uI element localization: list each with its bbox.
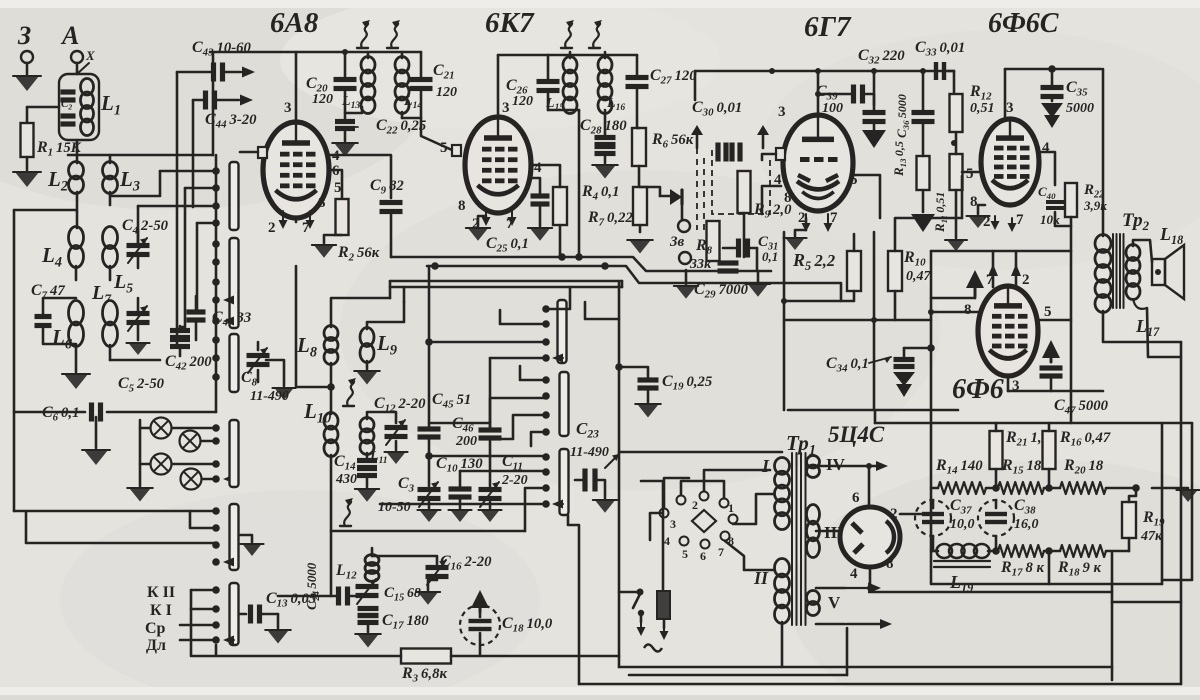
svg-text:C19 0,25: C19 0,25 [662, 373, 712, 393]
svg-text:3: 3 [670, 517, 676, 531]
svg-text:IV: IV [826, 455, 846, 474]
svg-text:5: 5 [966, 166, 974, 182]
svg-text:7: 7 [1016, 212, 1024, 228]
svg-text:200: 200 [455, 434, 477, 449]
svg-text:5: 5 [1044, 304, 1052, 320]
svg-text:8: 8 [318, 195, 326, 211]
svg-text:5000: 5000 [1066, 101, 1094, 116]
svg-text:R3 6,8к: R3 6,8к [401, 665, 447, 685]
svg-text:C25 0,1: C25 0,1 [486, 235, 529, 255]
svg-text:3: 3 [1006, 100, 1014, 116]
svg-text:C9 82: C9 82 [370, 177, 404, 197]
svg-text:C33 0,01: C33 0,01 [915, 39, 965, 59]
svg-text:C5 2-50: C5 2-50 [118, 375, 165, 395]
svg-text:R18 9 к: R18 9 к [1057, 559, 1102, 579]
svg-text:6Г7: 6Г7 [804, 11, 852, 43]
svg-text:120: 120 [512, 94, 533, 109]
svg-text:C6 0,1: C6 0,1 [42, 404, 79, 424]
svg-text:C16 2-20: C16 2-20 [440, 553, 492, 573]
svg-text:R14 140: R14 140 [935, 457, 983, 477]
svg-text:6А8: 6А8 [270, 7, 319, 39]
svg-text:X: X [85, 48, 95, 63]
svg-text:R4 0,1: R4 0,1 [581, 183, 619, 203]
svg-text:R6 56к: R6 56к [651, 131, 694, 151]
svg-text:4: 4 [1042, 140, 1050, 156]
svg-text:C30 0,01: C30 0,01 [692, 99, 742, 119]
svg-text:6Ф6: 6Ф6 [952, 374, 1004, 405]
svg-text:C18 10,0: C18 10,0 [502, 615, 553, 635]
svg-text:47к: 47к [1140, 529, 1163, 544]
svg-text:6Ф6С: 6Ф6С [988, 8, 1059, 39]
svg-text:11-490: 11-490 [570, 445, 609, 460]
svg-text:4: 4 [850, 566, 858, 582]
svg-text:К II: К II [147, 584, 175, 601]
svg-text:R7 0,22: R7 0,22 [587, 209, 633, 229]
svg-text:R16 0,47: R16 0,47 [1059, 429, 1111, 449]
svg-text:2: 2 [692, 498, 698, 512]
svg-text:4: 4 [664, 534, 670, 548]
svg-text:3в: 3в [669, 234, 685, 250]
svg-text:Дл: Дл [146, 637, 166, 654]
svg-text:16,0: 16,0 [1014, 517, 1039, 532]
svg-text:R2 56к: R2 56к [337, 244, 380, 264]
svg-text:10,0: 10,0 [950, 517, 975, 532]
svg-text:2: 2 [1022, 272, 1030, 288]
svg-text:C32 220: C32 220 [858, 47, 905, 67]
svg-text:2-20: 2-20 [501, 473, 528, 488]
svg-text:А: А [60, 21, 79, 50]
svg-text:6К7: 6К7 [485, 7, 535, 39]
svg-text:120: 120 [436, 85, 457, 100]
svg-text:1: 1 [728, 501, 734, 515]
svg-text:3: 3 [284, 100, 292, 116]
svg-text:5Ц4С: 5Ц4С [828, 422, 885, 447]
svg-text:C36 5000: C36 5000 [894, 94, 911, 138]
svg-text:К I: К I [150, 602, 172, 619]
svg-text:0,51: 0,51 [970, 101, 995, 116]
svg-text:C42 200: C42 200 [165, 353, 212, 373]
svg-text:V: V [828, 593, 841, 612]
svg-text:7: 7 [718, 545, 724, 559]
svg-text:8: 8 [964, 302, 972, 318]
svg-text:3: 3 [502, 100, 510, 116]
svg-text:C17 180: C17 180 [382, 612, 429, 632]
svg-text:R5 2,2: R5 2,2 [792, 250, 835, 273]
svg-text:2: 2 [890, 506, 898, 522]
svg-text:Ср: Ср [145, 620, 166, 637]
svg-text:R13 0,5: R13 0,5 [891, 141, 908, 177]
svg-text:I: I [761, 456, 770, 476]
svg-text:8: 8 [970, 194, 978, 210]
svg-text:C47 5000: C47 5000 [1054, 397, 1109, 417]
svg-text:C22 0,25: C22 0,25 [376, 117, 426, 137]
svg-text:C34 0,1: C34 0,1 [826, 355, 869, 375]
svg-text:3: 3 [778, 104, 786, 120]
svg-text:C43 10-60: C43 10-60 [192, 39, 251, 59]
svg-text:8: 8 [458, 198, 466, 214]
svg-text:10-50: 10-50 [378, 500, 411, 515]
svg-text:C4 2-50: C4 2-50 [122, 217, 169, 237]
svg-text:2: 2 [268, 220, 276, 236]
svg-text:R17 8 к: R17 8 к [1000, 559, 1045, 579]
svg-text:R11 0,51: R11 0,51 [932, 192, 949, 233]
svg-text:C28 180: C28 180 [580, 117, 627, 137]
svg-text:5: 5 [682, 547, 688, 561]
svg-text:З: З [17, 21, 31, 50]
svg-text:430: 430 [335, 472, 357, 487]
svg-text:6: 6 [700, 549, 706, 563]
svg-text:R9 2,0: R9 2,0 [753, 201, 792, 221]
svg-text:0,47: 0,47 [906, 269, 932, 284]
svg-text:0,1: 0,1 [762, 249, 778, 264]
svg-text:8: 8 [886, 556, 894, 572]
svg-text:5: 5 [334, 180, 342, 196]
svg-text:C44 3-20: C44 3-20 [205, 111, 257, 131]
svg-text:120: 120 [312, 92, 333, 107]
svg-text:4: 4 [534, 160, 542, 176]
svg-text:100: 100 [822, 101, 843, 116]
svg-text:6: 6 [852, 490, 860, 506]
svg-text:5: 5 [440, 140, 448, 156]
svg-text:C27 120: C27 120 [650, 67, 697, 87]
